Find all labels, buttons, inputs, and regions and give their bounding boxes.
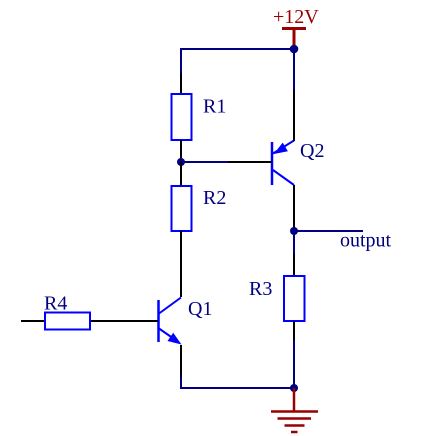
wire +12V node to Q2 emitter <box>293 49 295 90</box>
svg-text:R1: R1 <box>203 96 226 118</box>
svg-text:R4: R4 <box>44 293 67 315</box>
wire output stub <box>294 230 363 232</box>
transistor Q2 <box>228 90 294 231</box>
resistor R2 <box>172 162 192 297</box>
node output junction <box>290 227 298 235</box>
wire R3 to ground node <box>293 340 295 388</box>
svg-text:Q1: Q1 <box>188 298 212 320</box>
wire Q1 emitter to ground node <box>181 377 294 388</box>
node A junction <box>177 158 185 166</box>
power +12V <box>273 6 319 49</box>
transistor Q1 <box>90 298 182 378</box>
node ground junction <box>290 384 298 392</box>
ground <box>271 388 318 432</box>
wire output node to R3 <box>293 231 295 254</box>
resistor R4 <box>21 313 90 330</box>
svg-text:R2: R2 <box>203 187 226 209</box>
svg-text:+12V: +12V <box>273 6 319 28</box>
svg-text:R3: R3 <box>249 278 272 300</box>
resistor R3 <box>284 254 305 341</box>
node top junction <box>290 45 299 54</box>
resistor R1 <box>172 73 192 162</box>
wire node A to Q2 base <box>181 161 228 163</box>
wire top rail <box>181 49 294 73</box>
svg-text:Q2: Q2 <box>300 140 324 162</box>
svg-text:output: output <box>340 230 392 252</box>
